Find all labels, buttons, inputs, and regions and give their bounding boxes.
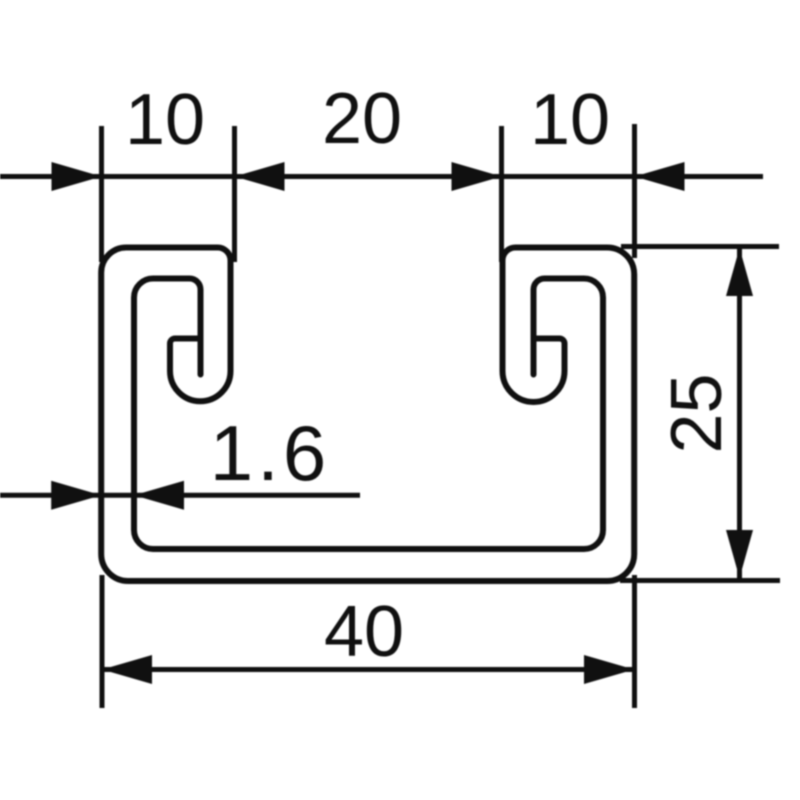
svg-text:1.6: 1.6 [210, 409, 330, 497]
svg-text:20: 20 [322, 79, 402, 159]
svg-text:10: 10 [125, 80, 205, 160]
svg-text:25: 25 [657, 373, 737, 453]
svg-text:10: 10 [530, 80, 610, 160]
svg-text:40: 40 [324, 592, 404, 672]
